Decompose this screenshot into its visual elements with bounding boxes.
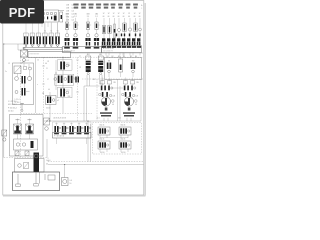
pump housing <box>14 139 38 150</box>
suction filter left <box>2 130 7 141</box>
counterbalance stack G1 <box>86 54 93 75</box>
plate I drops <box>56 138 58 144</box>
svg-text:B4: B4 <box>123 56 125 58</box>
svg-text:4B1: 4B1 <box>87 54 90 56</box>
wire: winch pilot stubs <box>102 84 104 86</box>
svg-text:22 110: 22 110 <box>8 111 13 113</box>
page shadow right <box>144 3 146 196</box>
svg-text:06: 06 <box>134 16 136 18</box>
directional valve DV3 <box>85 38 87 41</box>
check valve CV1 <box>118 29 121 32</box>
svg-text:0-6: 0-6 <box>72 20 74 22</box>
cylinder valve RV2 <box>119 56 123 77</box>
solenoid valve Y3 <box>36 23 40 47</box>
drawing frame <box>3 1 144 196</box>
rail wire F <box>55 60 57 90</box>
directional valve DV1 <box>64 38 66 41</box>
manifold I block outline <box>53 121 92 123</box>
svg-text:3B: 3B <box>42 93 44 95</box>
svg-text:2T: 2T <box>79 56 81 58</box>
selector valve above bank <box>60 12 63 22</box>
K row link wire <box>100 137 128 139</box>
pressure gauge PG1 <box>42 12 45 15</box>
solenoid valve Y5 <box>49 23 53 47</box>
solenoid valve Y4 <box>43 23 47 47</box>
svg-text:05 F 110 2: 05 F 110 2 <box>8 104 16 106</box>
cartridge valve CC4 <box>117 38 120 41</box>
svg-text:06 1: 06 1 <box>118 118 121 120</box>
wire: G2 drops <box>99 75 101 84</box>
gauge above valve 2 <box>74 34 77 37</box>
solenoid valve E3 <box>22 76 26 84</box>
cartridge valve CC6 <box>127 38 130 41</box>
gauge C2 <box>139 28 142 31</box>
solenoid valve Y2 <box>30 23 34 47</box>
reducing valve PR2 <box>134 18 138 39</box>
svg-text:2x: 2x <box>5 71 7 73</box>
pressure gauge PG2 <box>46 12 49 15</box>
svg-text:B1: B1 <box>107 56 109 58</box>
manifold plate B <box>63 47 102 53</box>
svg-text:B3: B3 <box>118 56 120 58</box>
wire: pressure line under manifolds <box>71 52 144 54</box>
svg-text:1Z: 1Z <box>128 13 130 15</box>
svg-text:1ZB: 1ZB <box>66 5 69 7</box>
svg-text:1Z: 1Z <box>113 13 115 15</box>
aux valve K22 <box>119 137 131 152</box>
valve group box D <box>105 58 142 80</box>
svg-text:1ZB: 1ZB <box>66 11 69 13</box>
cartridge valve CC3 <box>112 38 115 41</box>
center manifold valve row <box>53 117 91 133</box>
dashed boundary: enclosure top <box>21 56 144 58</box>
plate B port nubs <box>64 47 99 49</box>
svg-text:12B: 12B <box>136 96 139 98</box>
cartridge valve CC8 <box>137 38 140 41</box>
dashed boundary: tank return boundary left <box>4 157 48 159</box>
svg-text:06 1: 06 1 <box>97 118 100 120</box>
svg-text:2-1: 2-1 <box>87 16 90 18</box>
svg-text:0.1: 0.1 <box>27 60 29 62</box>
brake valve J <box>42 93 59 109</box>
dashed boundary: enclosure left <box>20 57 22 157</box>
flow control FC1 <box>64 13 70 45</box>
solenoid valve Y1 <box>24 23 28 47</box>
check valve CV0 <box>29 67 32 70</box>
plate C port stubs <box>106 52 140 55</box>
dashed boundary: divider h1 <box>21 113 93 115</box>
filter F1 <box>14 66 21 74</box>
svg-text:06: 06 <box>113 16 115 18</box>
svg-text:06 110: 06 110 <box>46 107 51 109</box>
wire: feed drop to X-box <box>17 44 19 50</box>
cartridge valve CC2 <box>107 38 110 41</box>
hydraulic motor M1 <box>101 97 114 106</box>
svg-text:2B3: 2B3 <box>68 96 71 98</box>
pilot valve F4 (small) <box>75 77 79 83</box>
part labels top row <box>73 4 143 11</box>
flow control FC2 <box>73 13 79 45</box>
svg-text:1R1: 1R1 <box>108 61 111 63</box>
svg-text:1T: 1T <box>47 79 49 81</box>
solenoid valve E4 <box>15 88 30 96</box>
motor base M1b <box>100 112 112 121</box>
cartridge valve I4 <box>77 126 79 132</box>
flow control FC4 <box>94 13 100 45</box>
manifold block A <box>28 52 71 58</box>
svg-text:1L 0.6: 1L 0.6 <box>46 160 50 162</box>
relief valve L2 <box>25 151 29 156</box>
aux valve K12 <box>119 123 131 138</box>
wire: riser manifold C <box>123 53 125 56</box>
hydraulic motor M2 <box>124 97 137 106</box>
svg-text:10: 10 <box>70 183 72 185</box>
relief valve RV1 <box>107 61 111 78</box>
junction dots <box>3 43 88 165</box>
winch pilot boxes M1p <box>101 78 116 85</box>
svg-text:12B: 12B <box>113 96 116 98</box>
manifold plate C <box>102 46 142 53</box>
gauge panel internals <box>43 17 44 20</box>
svg-text:P T A B A B A: P T A B A B A <box>54 135 65 138</box>
svg-text:B5: B5 <box>130 56 132 58</box>
wire: F column <box>62 57 64 89</box>
svg-text:1Z: 1Z <box>103 13 105 15</box>
svg-text:I'I'I'I'I'I'I'I'I'I'I'I'I': I'I'I'I'I'I'I'I'I'I'I'I'I' <box>30 54 40 56</box>
label rows C <box>103 13 141 18</box>
winch valve row 2 M2v2 <box>122 92 139 98</box>
wire: J drops <box>49 92 51 96</box>
svg-text:1Z: 1Z <box>139 13 141 15</box>
arrow marks on divider <box>42 60 79 92</box>
svg-text:06: 06 <box>46 164 48 166</box>
svg-text:16: 16 <box>37 60 39 62</box>
cartridge valve CC1 <box>102 38 105 41</box>
motor-pump unit on tank <box>15 153 51 173</box>
svg-text:2-1: 2-1 <box>74 16 77 18</box>
svg-text:1B4: 1B4 <box>95 13 98 15</box>
wire: cross link <box>111 87 123 89</box>
PDF badge <box>0 0 44 24</box>
svg-text:1B1: 1B1 <box>65 13 68 15</box>
winch valve row 1 M1v1 <box>101 86 113 91</box>
svg-text:PDF: PDF <box>9 5 36 20</box>
winch valve row 2 M1v2 <box>99 92 116 98</box>
wire: manifold I feed <box>44 120 88 122</box>
svg-text:1Z: 1Z <box>123 13 125 15</box>
svg-text:1P: 1P <box>79 67 81 69</box>
svg-text:0.6: 0.6 <box>112 104 114 106</box>
return filter <box>62 178 72 186</box>
port strip bank A <box>24 47 63 49</box>
cartridge valve CC5 <box>122 38 125 41</box>
gauge above valve 1 <box>65 34 68 37</box>
misc tiny labels <box>5 56 121 120</box>
pilot cluster F1 <box>58 60 73 71</box>
directional valve DV4 <box>94 38 96 41</box>
pump group P1 <box>14 119 22 140</box>
svg-text:06: 06 <box>48 89 50 91</box>
svg-text:1Z: 1Z <box>118 13 120 15</box>
junction dots F <box>63 57 64 58</box>
dashed boundary: divider v1 <box>43 57 45 113</box>
relief valve L1 <box>15 151 19 156</box>
winch pilot boxes M2p <box>124 78 139 85</box>
svg-text:0-6: 0-6 <box>72 11 74 13</box>
svg-text:1Z: 1Z <box>108 13 110 15</box>
svg-text:4B2: 4B2 <box>93 79 96 81</box>
svg-text:06: 06 <box>123 16 125 18</box>
svg-text:P 110 05-4: P 110 05-4 <box>8 108 17 110</box>
flow control FC3 <box>85 13 91 45</box>
throttle valve TC1 <box>114 18 116 39</box>
wire: motor feeds <box>103 98 105 100</box>
pilot cluster F2 dual <box>54 74 76 85</box>
svg-text:x2: x2 <box>57 100 59 102</box>
wire: return filter drop <box>64 165 66 178</box>
gauge above valve 3 <box>86 34 89 37</box>
svg-text:1: 1 <box>141 8 142 10</box>
svg-text:06: 06 <box>139 16 141 18</box>
check valve CV2 <box>28 77 32 81</box>
svg-text:11: 11 <box>46 68 48 70</box>
dashed box: aux valve group K <box>93 123 142 155</box>
svg-text:2-1: 2-1 <box>66 16 69 18</box>
pump group P2 <box>26 119 34 140</box>
gauge panel box above bank A <box>41 10 59 22</box>
svg-text:06: 06 <box>128 16 130 18</box>
svg-text:0.6: 0.6 <box>70 180 72 182</box>
wire: manifold I to tank <box>46 139 48 158</box>
dashed boundary: divider v3 <box>96 79 98 121</box>
dashed boundary: winch circuit top <box>82 78 143 80</box>
cartridge valve I5 <box>84 126 86 132</box>
svg-text:1Z: 1Z <box>134 13 136 15</box>
svg-text:1R2: 1R2 <box>132 61 135 63</box>
svg-text:4B1: 4B1 <box>99 54 102 56</box>
brake wedge M1w <box>105 108 108 111</box>
svg-text:B6: B6 <box>135 56 137 58</box>
svg-text:1B3: 1B3 <box>86 13 89 15</box>
wires: gauge box to valves <box>42 22 58 33</box>
wire: feed to bank A <box>4 43 24 45</box>
svg-text:06: 06 <box>108 16 110 18</box>
svg-text:1Z: 1Z <box>8 63 10 65</box>
gauge GE1 <box>15 77 19 81</box>
svg-text:1B2: 1B2 <box>74 13 77 15</box>
counterbalance stack G2 <box>98 54 105 75</box>
svg-text:0.6: 0.6 <box>45 63 47 65</box>
wire: K group drops <box>87 121 89 162</box>
svg-text:06: 06 <box>103 16 105 18</box>
pilot valve SP2 <box>108 18 111 39</box>
relief valve RV3 <box>131 61 135 78</box>
plate I port nubs <box>54 133 89 135</box>
gauge C1 <box>128 28 131 31</box>
test point symbol <box>21 103 23 110</box>
page shadow bottom <box>3 195 146 197</box>
wire: G stack tails to header <box>83 86 85 121</box>
svg-text:0-6: 0-6 <box>72 8 74 10</box>
cartridge valve I1 <box>54 126 56 132</box>
pilot valve SP1 <box>102 18 105 39</box>
gauge box link line <box>59 10 65 12</box>
wire: G1 drops <box>86 75 88 86</box>
dashed boundary: tank return boundary right <box>48 161 143 163</box>
hydraulic tank <box>13 172 60 191</box>
svg-text:1ZB: 1ZB <box>66 8 69 10</box>
motor base M2b <box>123 112 135 121</box>
pilot cluster F3 <box>58 87 73 98</box>
svg-text:2-1: 2-1 <box>95 16 98 18</box>
pump X-box <box>21 48 28 58</box>
svg-text:0.6: 0.6 <box>135 104 137 106</box>
cartridge valve I3 <box>69 126 71 132</box>
svg-text:1P: 1P <box>47 61 49 63</box>
power unit enclosure <box>10 115 44 157</box>
filter unit enclosure E <box>13 63 34 105</box>
feed valve I0 <box>44 118 50 130</box>
svg-text:06: 06 <box>118 16 120 18</box>
dashed boundary: step <box>47 158 49 162</box>
label columns right of gauge box <box>66 5 74 22</box>
brake wedge M2w <box>128 108 131 111</box>
cartridge valve I2 <box>62 126 64 132</box>
gauge under X-box <box>23 59 26 62</box>
solenoid valve Y6 <box>55 23 59 47</box>
winch valve row 1 M2v1 <box>124 86 136 91</box>
svg-text:2B1: 2B1 <box>68 65 71 67</box>
cartridge valve CC7 <box>132 38 135 41</box>
svg-text:1 2 3 4 5 6 7 8: 1 2 3 4 5 6 7 8 <box>103 51 113 53</box>
wire: main return line <box>48 164 144 166</box>
wire: left supply rail <box>3 44 5 158</box>
svg-text:12B: 12B <box>136 82 139 84</box>
svg-text:1.1 22 110: 1.1 22 110 <box>8 101 16 103</box>
pressure gauge PG3 <box>50 12 53 15</box>
reducing valve PR1 <box>123 18 127 39</box>
svg-text:B2: B2 <box>112 56 114 58</box>
wire: G cross lines <box>84 85 100 87</box>
cartridge manifold C dark band <box>102 38 141 45</box>
plate C top port band <box>102 46 141 48</box>
wire: return header <box>88 120 141 122</box>
directional valve DV2 <box>73 38 75 41</box>
dashed boundary: divider v2 <box>77 57 79 121</box>
svg-text:1ZB: 1ZB <box>66 20 69 22</box>
bypass marks <box>24 67 27 70</box>
wire: center chain feeds <box>28 64 30 68</box>
wire: F bottom drop <box>62 97 64 114</box>
svg-text:12B: 12B <box>113 82 116 84</box>
wire: inter-assembly verticals <box>117 79 119 121</box>
pressure gauge PG4 <box>54 12 57 15</box>
gauge above valve 4 <box>95 34 98 37</box>
wire: X-box gauge drop <box>23 57 25 59</box>
svg-text:06 110: 06 110 <box>100 152 105 154</box>
aux valve K11 <box>98 123 110 138</box>
pre-band port marks <box>116 34 141 37</box>
svg-text:06 110: 06 110 <box>121 152 126 154</box>
E stub wires <box>18 70 30 88</box>
center manifold plate I <box>53 133 92 139</box>
aux valve K21 <box>98 137 110 152</box>
